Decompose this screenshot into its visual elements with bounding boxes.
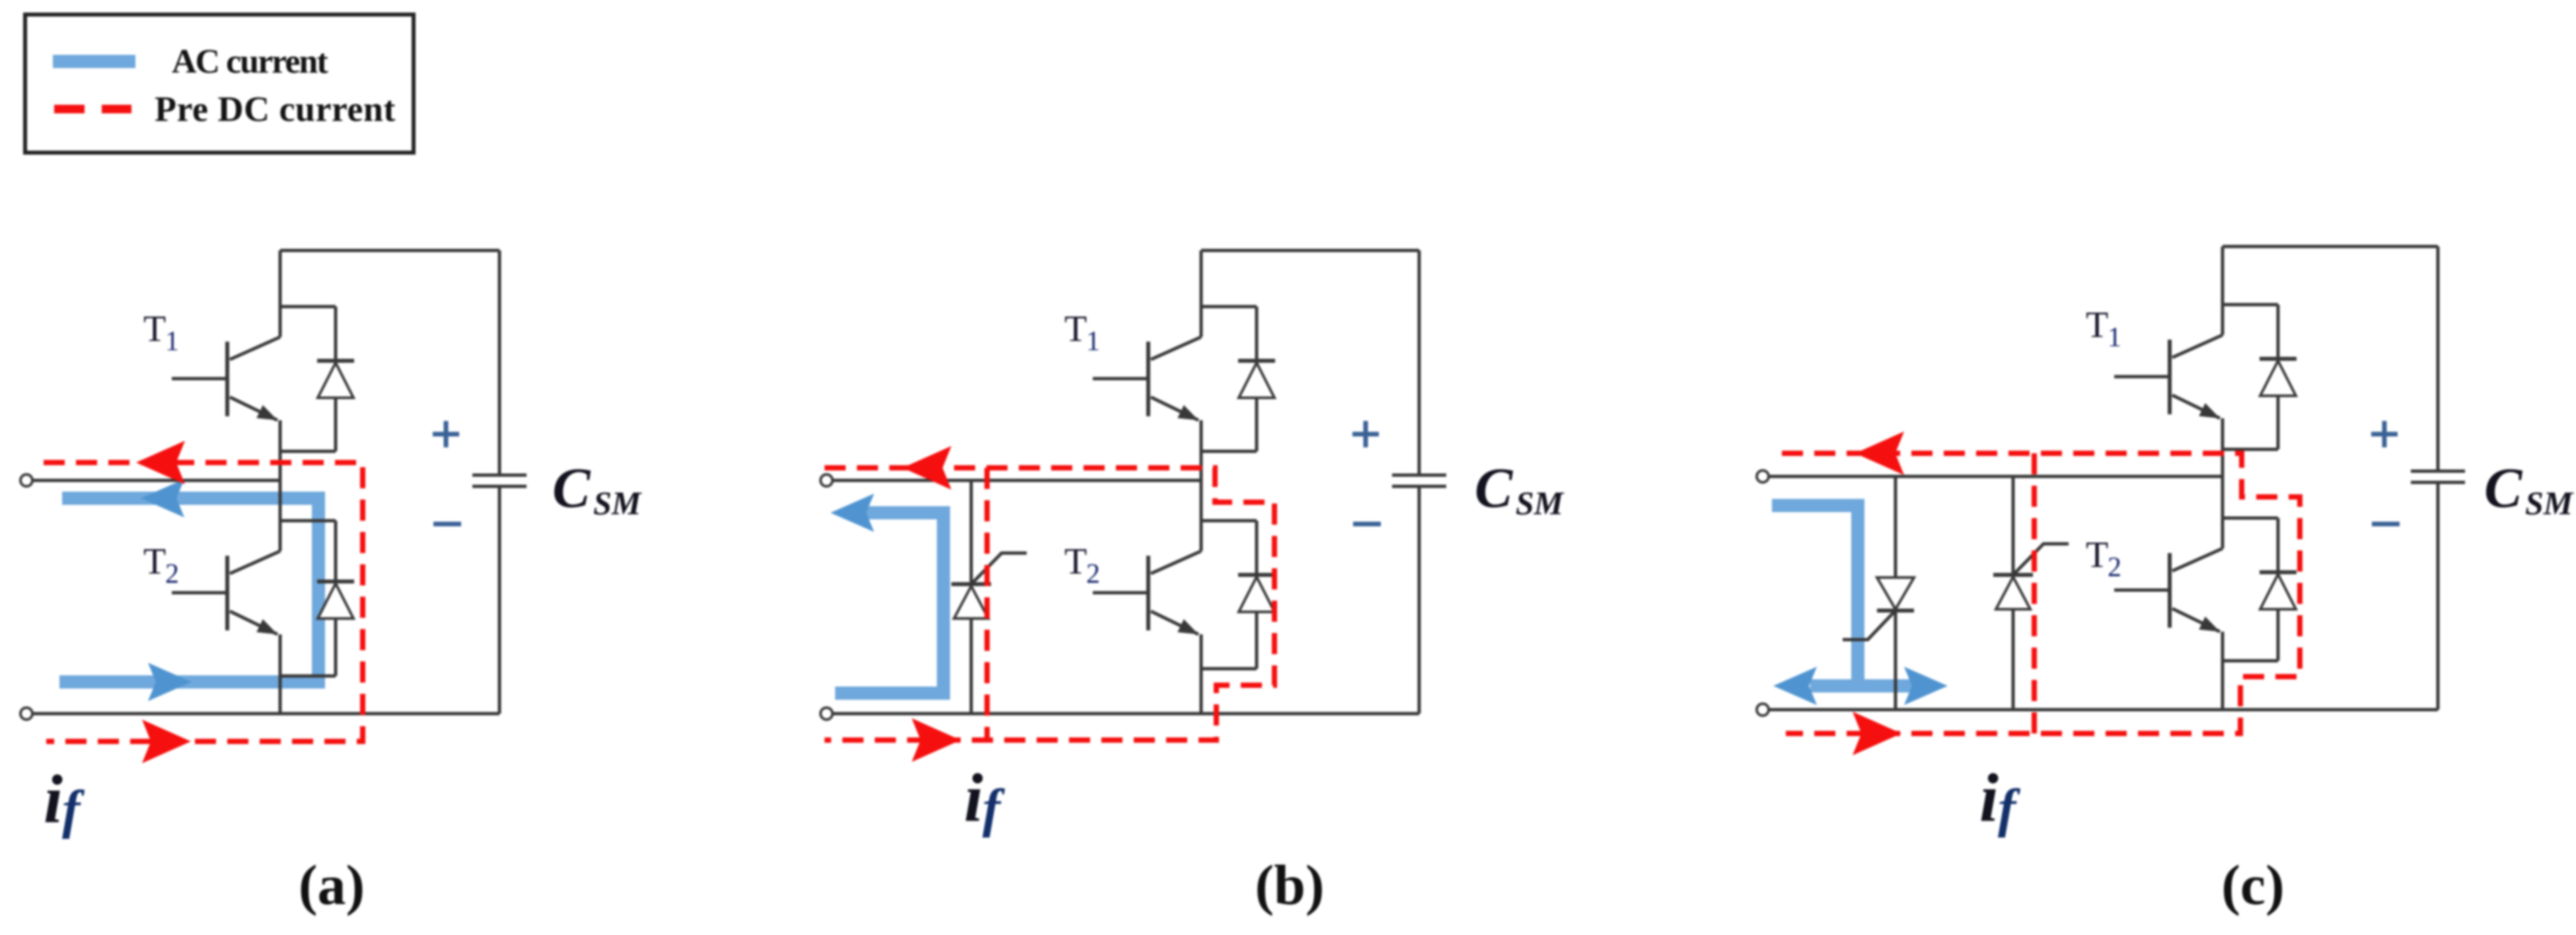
svg-text:T: T — [1064, 541, 1087, 582]
svg-text:1: 1 — [2108, 322, 2121, 353]
svg-text:T: T — [143, 541, 166, 582]
svg-text:(a): (a) — [299, 853, 365, 916]
svg-text:i: i — [44, 761, 63, 837]
svg-text:f: f — [1998, 778, 2021, 838]
svg-text:(c): (c) — [2221, 853, 2284, 916]
svg-text:T: T — [1064, 309, 1087, 350]
svg-text:T: T — [2086, 305, 2108, 346]
svg-text:SM: SM — [1516, 484, 1564, 521]
svg-text:2: 2 — [1086, 559, 1100, 589]
svg-text:f: f — [982, 778, 1006, 838]
svg-text:SM: SM — [2525, 484, 2574, 521]
svg-text:C: C — [552, 456, 591, 519]
svg-text:i: i — [964, 760, 983, 836]
svg-text:1: 1 — [1086, 326, 1100, 357]
svg-text:2: 2 — [2108, 552, 2121, 583]
svg-text:T: T — [2086, 535, 2108, 576]
svg-text:(b): (b) — [1255, 853, 1324, 916]
svg-text:f: f — [62, 779, 85, 839]
svg-text:Pre DC current: Pre DC current — [155, 89, 396, 129]
svg-text:SM: SM — [593, 484, 642, 521]
svg-text:T: T — [143, 309, 166, 350]
svg-text:AC current: AC current — [172, 43, 328, 81]
svg-text:2: 2 — [165, 559, 179, 589]
svg-text:i: i — [1979, 760, 1999, 836]
svg-text:1: 1 — [165, 326, 179, 357]
svg-text:C: C — [2484, 456, 2523, 519]
svg-text:C: C — [1475, 456, 1514, 519]
